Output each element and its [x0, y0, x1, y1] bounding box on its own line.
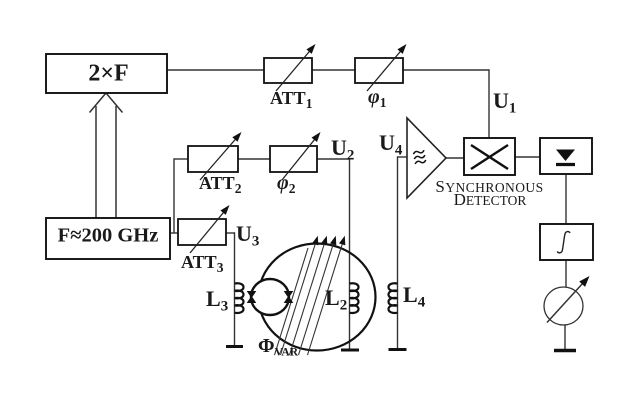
- svg-text:DETECTOR: DETECTOR: [454, 190, 527, 209]
- svg-text:2×F: 2×F: [88, 61, 128, 87]
- svg-text:F≈200 GHz: F≈200 GHz: [58, 225, 159, 247]
